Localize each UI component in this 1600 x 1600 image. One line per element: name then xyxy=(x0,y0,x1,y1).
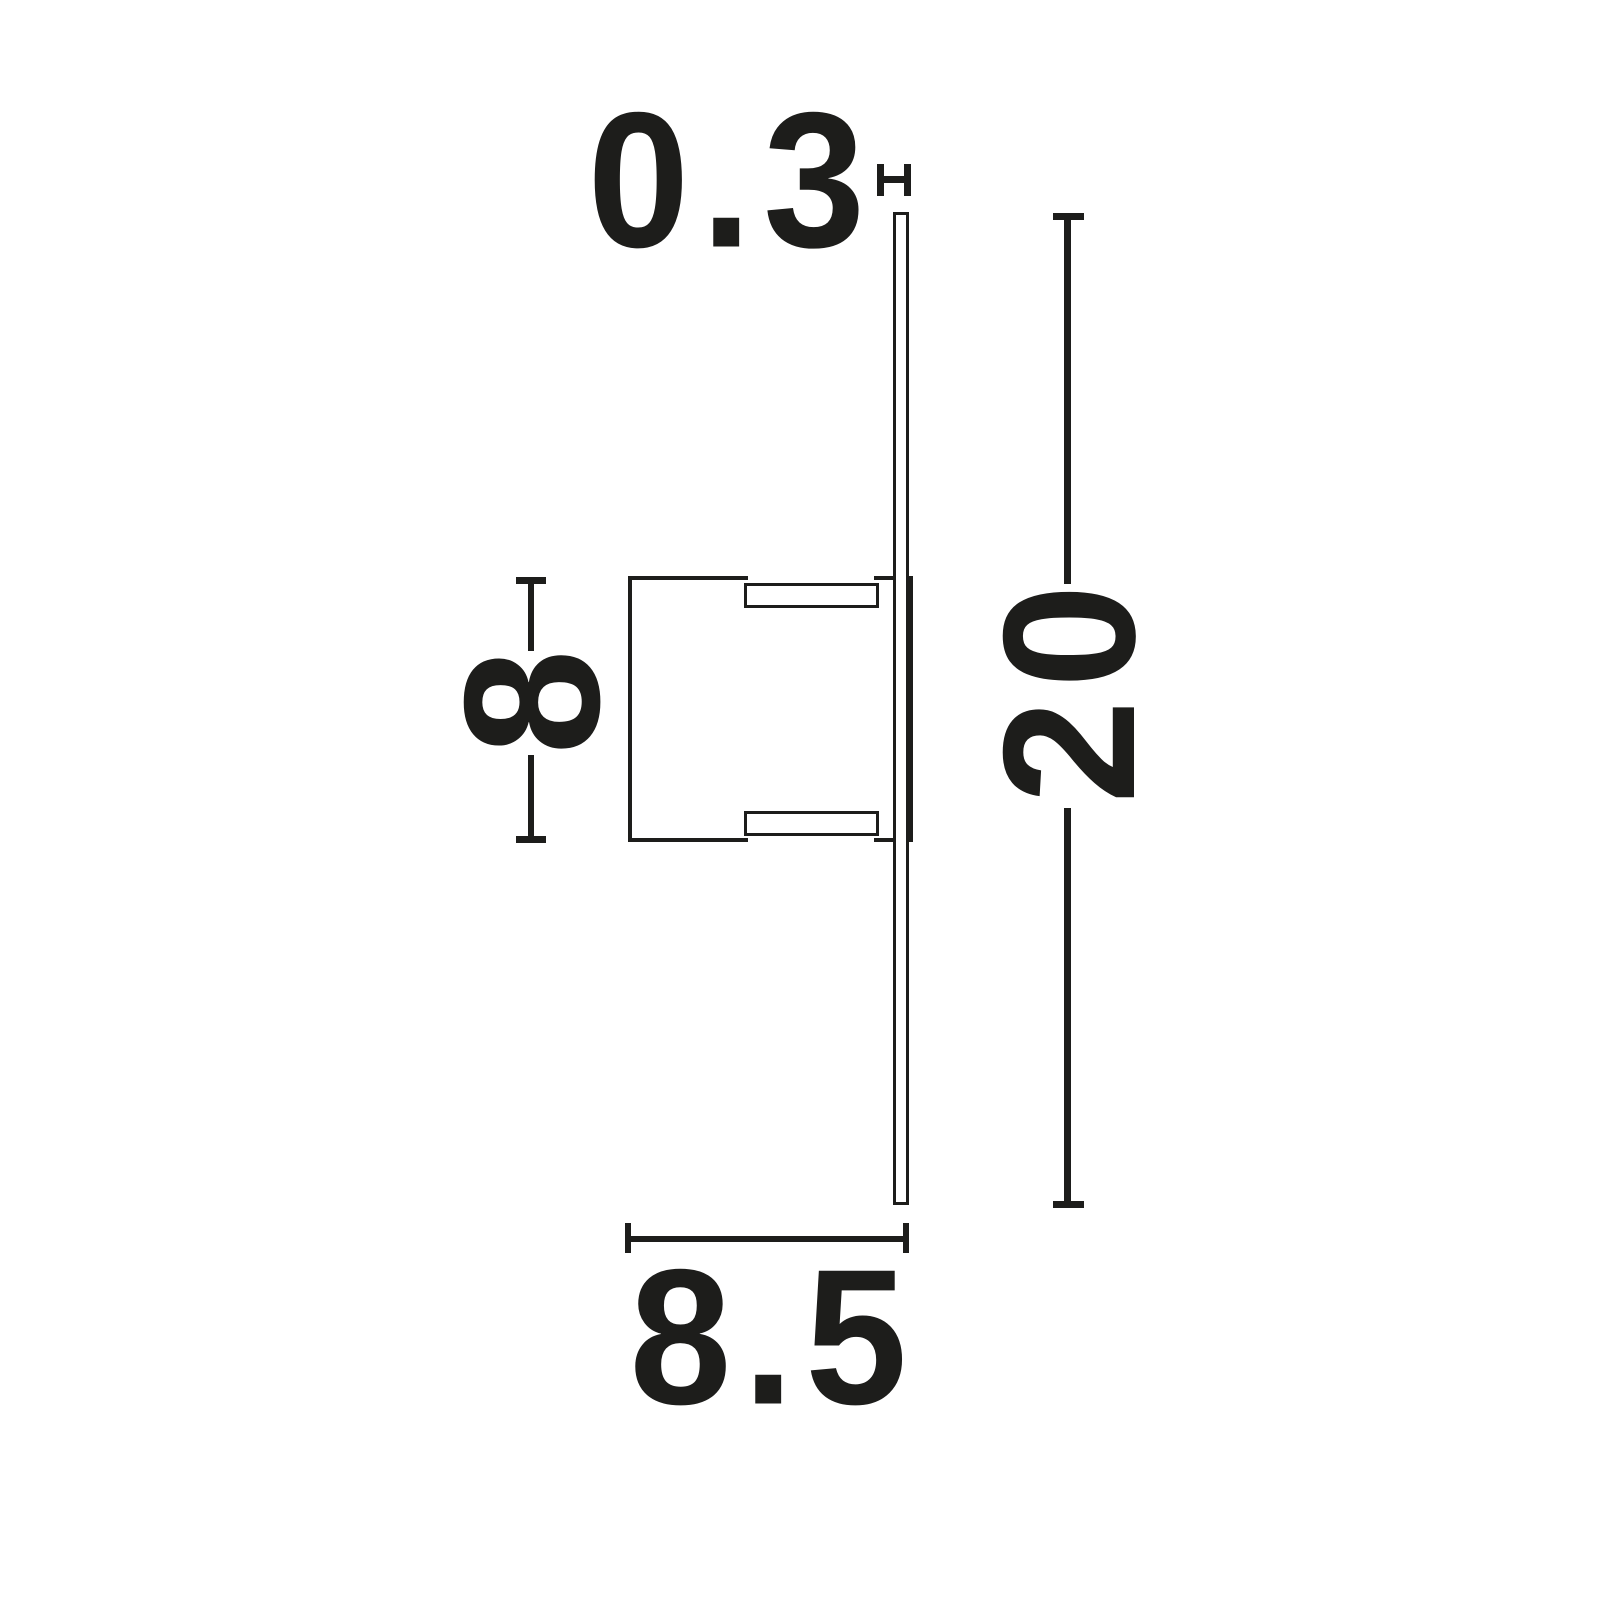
fixture body left edge xyxy=(628,576,632,843)
0.3 thickness marker: left bar xyxy=(877,164,884,196)
bottom flange slot (outlined rectangle) xyxy=(744,811,879,837)
dim 8.5: left tick xyxy=(625,1223,632,1253)
0.3 thickness marker: crossbar xyxy=(883,176,904,183)
label 0.3 xyxy=(588,83,877,276)
dim 8: bottom tick xyxy=(516,836,546,843)
label 20 (rotated) xyxy=(975,572,1163,803)
dim 8: upper line segment xyxy=(528,577,534,651)
dim 20: lower line segment xyxy=(1064,808,1071,1208)
fixture body bottom edge xyxy=(628,838,748,842)
label 8 (rotated) xyxy=(435,649,628,754)
0.3 thickness marker: right bar xyxy=(904,164,911,196)
fixture body top edge xyxy=(628,576,748,580)
dim 20: upper line segment xyxy=(1064,213,1071,585)
dim 8: top tick xyxy=(516,577,546,584)
mounting plate (side view, vertical thin panel) xyxy=(893,212,909,1205)
dim 20: bottom tick xyxy=(1053,1201,1085,1208)
dim 8.5: horizontal line xyxy=(625,1236,909,1242)
dim 20: top tick xyxy=(1053,213,1085,220)
label 8.5 xyxy=(630,1240,919,1433)
top connector to plate xyxy=(874,576,896,580)
dim 8: lower line segment xyxy=(528,755,534,843)
dim 8.5: right tick xyxy=(903,1223,910,1253)
trim bezel visible on right side of plate xyxy=(906,576,913,842)
top flange slot (outlined rectangle) xyxy=(744,583,879,609)
bottom connector to plate xyxy=(874,838,896,842)
